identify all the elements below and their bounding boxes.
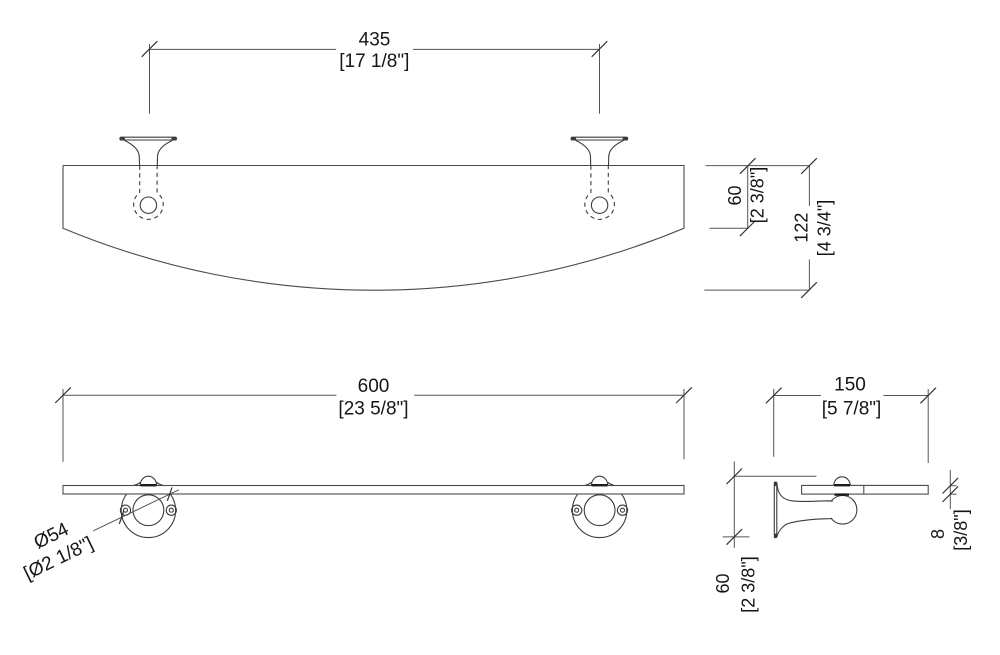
leader tick at circle far side: [167, 487, 172, 500]
ext line right: [599, 44, 601, 114]
ext line left: [773, 389, 775, 457]
bell bottom profile: [777, 518, 832, 537]
tick right 435: [592, 41, 608, 57]
tick 60 top: [740, 158, 756, 174]
dimension 150: [774, 389, 929, 463]
ext stub top: [950, 485, 956, 487]
E2 screw left: [572, 505, 582, 515]
dim line 122 vertical upper segment: [808, 166, 810, 206]
slab seam line: [863, 485, 865, 494]
ext line bottom (plate bottom level): [723, 536, 750, 538]
bracket B2 right bell curve: [609, 140, 624, 165]
E1 screw left: [120, 505, 130, 515]
dimension 600: [63, 389, 684, 462]
ext line bottom (arc low point level): [704, 289, 809, 291]
wall plate: [774, 482, 777, 538]
dim line left segment: [63, 394, 336, 396]
tick 122 top: [801, 158, 817, 174]
svg-text:600: 600: [358, 376, 390, 397]
shelf slab side view: [802, 485, 929, 494]
svg-text:[5 7/8"]: [5 7/8"]: [822, 399, 882, 420]
ball joint: [828, 496, 857, 525]
tick right 600: [676, 387, 692, 403]
tick left 150: [766, 388, 782, 404]
svg-text:[2 3/8"]: [2 3/8"]: [739, 556, 759, 612]
E1 dome base dark chord: [141, 484, 157, 486]
dim line right segment: [883, 395, 928, 397]
dimension 435: [150, 44, 600, 114]
bracket B2 flange: [571, 137, 628, 140]
ext line top (shelf top level): [706, 165, 809, 167]
leader line Ø54: [93, 490, 179, 531]
E2 base flare right: [608, 482, 614, 485]
svg-text:[2 3/8"]: [2 3/8"]: [747, 167, 767, 223]
svg-text:[23 5/8"]: [23 5/8"]: [338, 398, 408, 419]
svg-text:[4 3/4"]: [4 3/4"]: [815, 200, 835, 256]
leader tick at circle near side: [119, 511, 124, 524]
escutcheon E2 outer circle: [572, 483, 626, 537]
tick 122 bottom: [801, 282, 817, 298]
side clamp lower dark chord: [835, 493, 850, 495]
bracket B1 flange: [120, 137, 177, 140]
dim line right segment: [413, 48, 600, 50]
svg-text:60: 60: [713, 573, 733, 593]
shelf slab edge-on: [63, 486, 684, 495]
E1 dome knob: [140, 476, 156, 485]
left bracket B1 (front elevation): [120, 137, 177, 219]
E1 base flare left: [134, 482, 140, 485]
tick 8 bottom: [943, 486, 959, 502]
tick right 150: [920, 388, 936, 404]
bracket B1 left bell curve: [124, 140, 139, 165]
svg-text:[3/8"]: [3/8"]: [951, 509, 971, 550]
E2 base flare left: [585, 482, 591, 485]
ext stub bottom: [950, 493, 956, 495]
dim line vertical: [949, 470, 951, 509]
bracket B2 left bell curve: [576, 140, 591, 165]
ext line right: [927, 389, 929, 463]
E2 screw right: [617, 505, 627, 515]
escutcheon E1 inner circle: [133, 495, 164, 526]
shelf outline (top edge, sides, curved bottom): [63, 166, 684, 291]
mask above slab E2: [566, 480, 632, 485]
tick left 435: [142, 41, 158, 57]
ext line top (to dome top level): [734, 475, 816, 477]
escutcheon E1 outer circle: [121, 483, 175, 537]
svg-text:60: 60: [725, 185, 745, 205]
tick 60s top: [727, 469, 743, 485]
bell body fill: [777, 483, 833, 537]
bracket B1 right bell curve: [157, 140, 172, 165]
dim line 60 vertical: [747, 166, 749, 229]
svg-text:435: 435: [359, 29, 391, 50]
svg-text:8: 8: [928, 529, 948, 539]
wall plate end caps: [774, 483, 776, 485]
dim line left segment: [774, 395, 821, 397]
E2 dome base dark chord: [592, 484, 608, 486]
tick 60 bottom: [740, 221, 756, 237]
side dome knob: [834, 477, 850, 486]
mask above slab E1: [115, 480, 181, 485]
tick 8 top: [943, 478, 959, 494]
escutcheon E2 inner circle: [584, 495, 615, 526]
dimension 60 (right of top view): [706, 166, 809, 229]
bracket B2 hidden keyhole (dashed): [585, 166, 615, 220]
dim line right segment: [414, 394, 684, 396]
svg-text:[17 1/8"]: [17 1/8"]: [339, 51, 409, 72]
right bracket B2 (front elevation): [571, 137, 628, 219]
E1 base flare right: [157, 482, 163, 485]
bracket B2 flange end caps: [573, 137, 575, 140]
dimension 8 (slab thickness): [950, 470, 956, 509]
ext line right: [683, 389, 685, 459]
svg-text:122: 122: [792, 213, 812, 243]
dim line 122 vertical lower segment: [808, 260, 810, 291]
dimension 122 (right of top view): [704, 166, 809, 291]
E2 dome knob: [591, 476, 607, 485]
bracket B2 screw hole: [591, 197, 607, 213]
bracket B1 screw hole: [140, 197, 156, 213]
dimension 60 (below side view): [723, 462, 817, 548]
bell top profile: [777, 483, 833, 502]
svg-text:150: 150: [834, 375, 866, 396]
dim line vertical: [733, 462, 735, 548]
side dome base dark chord: [834, 484, 850, 486]
ext line middle (shelf edge bottom level): [710, 227, 749, 229]
tick left 600: [55, 387, 71, 403]
ext line left: [62, 389, 64, 462]
bracket B1 flange end caps: [122, 137, 124, 140]
ext line left: [149, 44, 151, 114]
tick 60s bottom: [727, 529, 743, 545]
bracket B1 hidden keyhole (dashed): [134, 166, 164, 220]
E1 screw right: [166, 505, 176, 515]
dim line left segment: [150, 48, 337, 50]
